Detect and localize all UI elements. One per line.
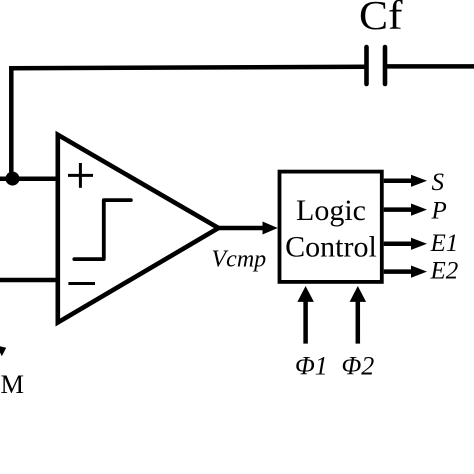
wire: non-inverting input net from left edge through node A to comparator + input [0, 177, 58, 182]
svg-text:E2: E2 [430, 258, 459, 285]
svg-text:Φ1: Φ1 [295, 352, 328, 381]
svg-text:Φ2: Φ2 [342, 352, 375, 381]
wire: output E2 with arrowhead [384, 266, 427, 278]
comparator + input polarity marker [68, 163, 93, 188]
svg-text:Logic: Logic [296, 194, 366, 227]
clock input Φ1 arrow into logic control bottom [297, 286, 314, 344]
wire: inverting input net from left edge to comparator − input [0, 278, 58, 283]
node A junction dot on non-inverting input [6, 172, 20, 186]
arrowhead: comparator output into logic control [263, 222, 278, 235]
wire: feedback vertical segment from node A up to top rail [9, 66, 14, 178]
capacitor Cf left plate [364, 47, 369, 84]
wire: comparator output Vcmp to logic control input [219, 226, 266, 231]
arrowhead: cropped ramp-signal arrow at bottom left edge [0, 346, 6, 356]
svg-text:S: S [432, 169, 445, 196]
wire: output P with arrowhead [384, 204, 427, 216]
wire: feedback top horizontal rail to capacitor Cf left plate [9, 67, 366, 69]
svg-text:Control: Control [285, 230, 377, 263]
svg-text:E1: E1 [430, 230, 459, 257]
svg-text:Cf: Cf [359, 0, 403, 38]
logic control block U2 [280, 172, 382, 282]
wire: top rail from Cf right plate to right edge [385, 64, 474, 69]
wire: output E1 with arrowhead [384, 238, 427, 250]
comparator − input polarity marker [68, 282, 95, 285]
capacitor Cf right plate [383, 47, 388, 84]
hysteresis step symbol inside comparator [74, 200, 131, 259]
op-amp comparator U1 triangle body [58, 135, 219, 323]
svg-text:M: M [1, 370, 24, 399]
svg-text:Vcmp: Vcmp [212, 247, 267, 273]
svg-text:P: P [431, 198, 447, 225]
clock input Φ2 arrow into logic control bottom [350, 286, 367, 344]
wire: output S with arrowhead [384, 175, 427, 187]
